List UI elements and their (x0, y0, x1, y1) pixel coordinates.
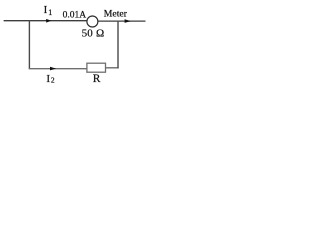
svg-text:I: I (44, 4, 48, 16)
ammeter meter M1 (circle body) (87, 16, 98, 27)
svg-text:50 Ω: 50 Ω (82, 28, 105, 40)
wire bottom segment left of R (29, 68, 87, 70)
wire top-right segment (98, 20, 145, 22)
svg-text:1: 1 (48, 8, 52, 17)
current arrow output (right) (125, 19, 131, 23)
svg-text:R: R (93, 73, 101, 85)
current arrow I1 (46, 19, 51, 23)
node right junction wire (vertical) (117, 21, 119, 69)
svg-text:Meter: Meter (104, 9, 128, 20)
svg-text:0.01A: 0.01A (63, 11, 87, 21)
svg-text:2: 2 (51, 76, 55, 85)
wire top-left segment (4, 20, 87, 22)
current arrow I2 (50, 67, 56, 71)
svg-text:I: I (46, 73, 50, 85)
wire bottom segment right of R (106, 67, 119, 69)
node left junction wire (vertical) (28, 20, 30, 69)
resistor R (box) (87, 63, 106, 72)
